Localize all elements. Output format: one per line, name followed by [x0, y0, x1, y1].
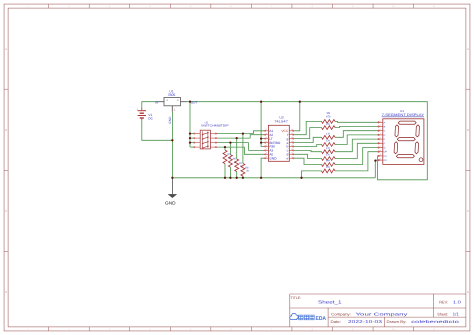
svg-text:2: 2 [68, 328, 70, 331]
svg-text:10: 10 [379, 157, 381, 160]
svg-text:GND: GND [168, 116, 172, 124]
svg-text:470: 470 [326, 154, 331, 157]
svg-text:470: 470 [326, 116, 331, 119]
svg-text:14: 14 [291, 136, 293, 139]
svg-text:10: 10 [392, 5, 395, 8]
svg-text:9: 9 [292, 156, 293, 159]
svg-text:7: 7 [271, 328, 273, 331]
svg-text:SWITCH4B8TDIP: SWITCH4B8TDIP [201, 124, 229, 128]
svg-text:F: F [384, 142, 386, 145]
svg-text:Sheet:: Sheet: [437, 312, 448, 316]
svg-text:13: 13 [291, 140, 293, 143]
svg-text:470: 470 [326, 133, 331, 136]
svg-text:9: 9 [352, 328, 354, 331]
svg-text:Company:: Company: [331, 312, 351, 316]
svg-text:10: 10 [291, 152, 293, 155]
svg-text:1: 1 [28, 5, 30, 8]
svg-text:Drawn By:: Drawn By: [387, 320, 407, 324]
svg-text:74LS47: 74LS47 [274, 119, 288, 123]
svg-text:6: 6 [380, 141, 381, 144]
svg-text:7805: 7805 [168, 93, 176, 97]
svg-text:D: D [467, 290, 469, 294]
svg-text:TITLE:: TITLE: [291, 296, 302, 300]
svg-text:REV:: REV: [439, 300, 448, 304]
svg-text:G: G [384, 147, 386, 150]
svg-text:470: 470 [326, 166, 331, 169]
svg-text:4: 4 [149, 5, 151, 8]
svg-text:9: 9 [380, 153, 381, 156]
svg-text:2: 2 [68, 5, 70, 8]
svg-text:7: 7 [266, 128, 267, 131]
svg-text:Sheet_1: Sheet_1 [318, 299, 342, 304]
svg-text:1: 1 [166, 99, 168, 102]
svg-text:2022-10-03: 2022-10-03 [348, 319, 383, 324]
svg-text:5: 5 [266, 144, 267, 147]
svg-text:1k: 1k [246, 170, 249, 173]
svg-text:A: A [5, 47, 7, 51]
svg-text:B: B [384, 126, 386, 129]
svg-text:GND: GND [269, 156, 277, 160]
svg-text:5: 5 [380, 136, 381, 139]
svg-text:10: 10 [392, 328, 395, 331]
svg-text:6: 6 [231, 328, 233, 331]
svg-text:3: 3 [109, 328, 111, 331]
svg-text:8: 8 [312, 328, 314, 331]
svg-text:3: 3 [380, 128, 381, 131]
svg-text:D: D [5, 290, 7, 294]
svg-text:2: 2 [266, 148, 267, 151]
svg-text:6: 6 [231, 5, 233, 8]
svg-text:11: 11 [433, 5, 436, 8]
svg-text:Date:: Date: [331, 320, 341, 324]
svg-text:6: 6 [266, 152, 267, 155]
svg-text:B: B [5, 128, 7, 132]
svg-text:7: 7 [380, 145, 381, 148]
svg-text:3: 3 [266, 136, 267, 139]
svg-text:1: 1 [28, 328, 30, 331]
svg-text:4: 4 [266, 140, 267, 143]
svg-text:8: 8 [266, 156, 267, 159]
svg-text:C: C [467, 209, 469, 213]
svg-text:C: C [384, 130, 386, 133]
svg-text:470: 470 [326, 160, 331, 163]
svg-text:D2: D2 [384, 159, 388, 162]
svg-text:e: e [286, 156, 288, 160]
svg-text:IN: IN [155, 100, 159, 104]
svg-text:12: 12 [291, 144, 293, 147]
svg-text:15: 15 [291, 132, 293, 135]
svg-text:1.0: 1.0 [453, 299, 462, 304]
svg-text:C: C [5, 209, 7, 213]
svg-text:OUT: OUT [191, 100, 198, 104]
svg-text:8: 8 [312, 5, 314, 8]
svg-text:2: 2 [174, 108, 176, 111]
svg-text:DC: DC [148, 117, 153, 121]
svg-text:B: B [467, 128, 469, 132]
svg-text:470: 470 [326, 147, 331, 150]
svg-text:11: 11 [433, 328, 436, 331]
svg-text:D: D [384, 134, 386, 137]
svg-text:4: 4 [149, 328, 151, 331]
svg-text:7-SEGMENT DISPLAY: 7-SEGMENT DISPLAY [382, 113, 425, 117]
svg-text:8: 8 [380, 149, 381, 152]
svg-text:7: 7 [271, 5, 273, 8]
svg-text:GND: GND [165, 201, 176, 206]
svg-text:4: 4 [380, 132, 381, 135]
svg-text:EDA: EDA [316, 316, 327, 322]
svg-text:470: 470 [326, 140, 331, 143]
svg-text:A: A [384, 121, 386, 124]
svg-text:1/1: 1/1 [453, 311, 460, 316]
svg-text:11: 11 [291, 148, 293, 151]
svg-text:16: 16 [291, 128, 293, 131]
svg-text:E: E [384, 138, 386, 141]
svg-text:A: A [467, 47, 469, 51]
svg-text:1: 1 [266, 132, 267, 135]
svg-text:2: 2 [380, 124, 381, 127]
svg-text:colebenedicto: colebenedicto [411, 319, 460, 324]
svg-text:5: 5 [190, 5, 192, 8]
svg-text:D1: D1 [384, 155, 388, 158]
svg-text:9: 9 [352, 5, 354, 8]
svg-text:470: 470 [326, 123, 331, 126]
svg-text:3: 3 [177, 99, 179, 102]
svg-text:5: 5 [190, 328, 192, 331]
svg-text:Your Company: Your Company [356, 311, 410, 316]
svg-text:DP: DP [384, 151, 388, 154]
svg-text:1: 1 [380, 120, 381, 123]
svg-text:3: 3 [109, 5, 111, 8]
